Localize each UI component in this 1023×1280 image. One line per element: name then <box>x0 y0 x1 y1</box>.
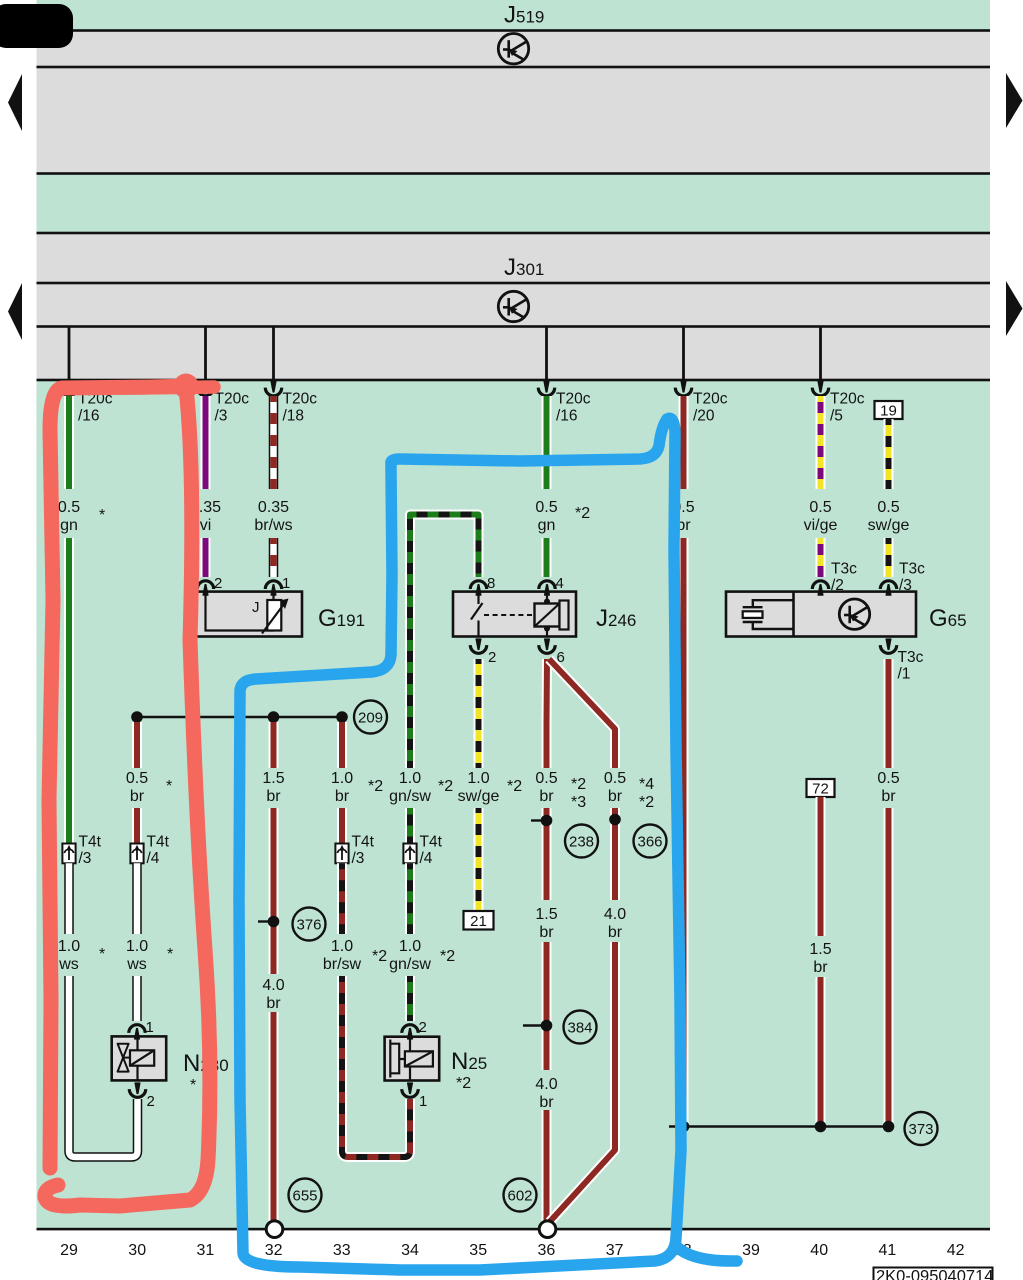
svg-text:0.5: 0.5 <box>877 770 899 787</box>
svg-text:br: br <box>539 788 554 805</box>
svg-text:*: * <box>99 946 105 963</box>
svg-text:/16: /16 <box>78 408 100 425</box>
N280 valve triangles <box>118 1044 129 1072</box>
ground bus line 373 <box>669 1125 889 1127</box>
svg-text:*2: *2 <box>639 794 654 811</box>
svg-text:376: 376 <box>296 917 321 934</box>
wire 0.5 br track 38 <box>679 396 689 1127</box>
svg-text:34: 34 <box>401 1242 419 1259</box>
node circle 602 <box>504 1179 537 1212</box>
valve N280 box <box>112 1036 167 1080</box>
wire drop from J301 track 38 <box>682 327 685 381</box>
junction dot and stub 384 on track 36 <box>523 1024 545 1026</box>
svg-text:/20: /20 <box>693 408 715 425</box>
svg-text:2: 2 <box>147 1093 155 1110</box>
svg-text:*: * <box>167 946 173 963</box>
svg-text:0.5: 0.5 <box>535 499 557 516</box>
svg-text:T4t: T4t <box>420 834 443 851</box>
svg-text:/4: /4 <box>420 850 433 867</box>
svg-text:/3: /3 <box>79 850 92 867</box>
svg-text:br: br <box>266 788 281 805</box>
svg-text:br: br <box>539 1094 554 1111</box>
G65 pin T3c/1 <box>880 639 896 653</box>
svg-text:/18: /18 <box>283 408 305 425</box>
svg-text:1.5: 1.5 <box>535 906 557 923</box>
svg-text:209: 209 <box>358 710 383 727</box>
wire 0.5 br from J246 pin 6 diagonal to track 37 <box>549 659 615 1222</box>
svg-text:4.0: 4.0 <box>262 977 284 994</box>
sensor G191 box <box>187 592 302 637</box>
G65 symbol K in circle <box>839 599 869 629</box>
svg-text:37: 37 <box>606 1242 624 1259</box>
part number box 2K0-095040714 <box>874 1268 993 1280</box>
G65 crystal pressure element <box>753 600 794 629</box>
svg-text:36: 36 <box>538 1242 556 1259</box>
svg-text:vi/ge: vi/ge <box>804 517 838 534</box>
pressure sensor G65 box <box>726 592 916 637</box>
control unit J519 band (title strip) <box>37 0 991 31</box>
svg-text:br: br <box>608 924 623 941</box>
connector T20c/16 track 36 <box>538 382 554 396</box>
ground terminal track 36 <box>539 1221 556 1238</box>
svg-text:0.5: 0.5 <box>877 499 899 516</box>
svg-text:*2: *2 <box>440 948 455 965</box>
svg-text:1.0: 1.0 <box>331 770 353 787</box>
svg-text:31: 31 <box>197 1242 215 1259</box>
svg-text:8: 8 <box>487 575 495 592</box>
svg-text:T20c: T20c <box>215 391 250 408</box>
connector T4t/4 track 34 <box>403 844 416 864</box>
svg-text:ws: ws <box>126 956 147 973</box>
G191 pin 1 <box>265 581 281 595</box>
svg-text:2: 2 <box>488 649 496 666</box>
N25 pin 2 <box>402 1025 418 1039</box>
svg-text:T20c: T20c <box>830 391 865 408</box>
svg-text:1.0: 1.0 <box>467 770 489 787</box>
svg-text:2: 2 <box>214 575 222 592</box>
svg-text:*2: *2 <box>372 948 387 965</box>
svg-text:sw/ge: sw/ge <box>868 517 910 534</box>
wire 1.5 br below box 72 track 40 <box>816 797 826 1127</box>
svg-text:br: br <box>608 788 623 805</box>
red marker loop annotation <box>49 386 190 1168</box>
svg-text:br: br <box>335 788 350 805</box>
svg-text:41: 41 <box>879 1242 897 1259</box>
wire 0.5 br from J246 pin 6 straight down track 36 <box>542 659 553 1221</box>
svg-text:J: J <box>252 599 260 616</box>
junction dot and stub 376 on track 32 <box>258 920 272 922</box>
svg-text:/3: /3 <box>352 850 365 867</box>
svg-text:39: 39 <box>742 1242 760 1259</box>
svg-text:0.5: 0.5 <box>809 499 831 516</box>
svg-text:T3c: T3c <box>899 561 925 578</box>
band separator line 5 <box>37 282 991 285</box>
wire 1.0 ws track 29 U-shape to N280 pin 2 <box>69 863 138 1157</box>
right page arrow top <box>1006 73 1023 128</box>
left page arrow bottom <box>8 283 22 340</box>
svg-text:br/sw: br/sw <box>323 956 362 973</box>
svg-text:33: 33 <box>333 1242 351 1259</box>
J519 internal gray band upper <box>37 31 991 68</box>
svg-text:br: br <box>881 788 896 805</box>
svg-text:1: 1 <box>146 1019 154 1036</box>
svg-text:vi: vi <box>200 517 212 534</box>
wire 1.0 sw/ge from J246 pin 2 to terminal 21 <box>474 659 484 911</box>
left page arrow top <box>8 74 22 131</box>
clutch N25 box <box>385 1037 440 1081</box>
svg-text:gn/sw: gn/sw <box>389 956 431 973</box>
node circle 655 <box>289 1179 322 1212</box>
N280 solenoid rect <box>130 1050 154 1065</box>
terminal box 21 <box>464 911 494 930</box>
svg-text:*2: *2 <box>571 776 586 793</box>
svg-text:0.5: 0.5 <box>126 770 148 787</box>
bottom border line of schematic <box>37 1228 991 1231</box>
wire 0.5 vi/ge track 40 <box>816 396 826 577</box>
J246 pin 6 <box>539 639 555 653</box>
wire 0.5 br below G65 track 41 <box>884 659 894 1127</box>
svg-text:*2: *2 <box>368 778 383 795</box>
svg-text:/2: /2 <box>831 577 844 594</box>
ground terminal track 32 <box>266 1221 283 1238</box>
wire 1.5 br / 4.0 br track 32 <box>269 722 279 1221</box>
svg-text:1.0: 1.0 <box>58 938 80 955</box>
svg-text:35: 35 <box>469 1242 487 1259</box>
svg-text:30: 30 <box>128 1242 146 1259</box>
wire drop from J301 track 36 <box>545 327 548 381</box>
G191 internal wire pin2 to resistor <box>206 592 275 631</box>
connector T20c/18 track 32 <box>265 382 281 396</box>
svg-text:0.5: 0.5 <box>535 770 557 787</box>
band separator line 3 <box>37 172 991 175</box>
svg-text:384: 384 <box>567 1020 592 1037</box>
svg-text:*: * <box>166 778 172 795</box>
junction node line 209 <box>137 716 342 718</box>
svg-text:ws: ws <box>58 956 79 973</box>
svg-text:42: 42 <box>947 1242 965 1259</box>
connector T4t/3 track 33 <box>335 844 348 864</box>
svg-text:1.0: 1.0 <box>126 938 148 955</box>
svg-text:40: 40 <box>810 1242 828 1259</box>
svg-text:0.5: 0.5 <box>58 499 80 516</box>
J301 wire exit band <box>37 327 991 381</box>
svg-text:T4t: T4t <box>79 834 102 851</box>
junction dot 366 on track 37 <box>609 814 621 826</box>
wire 0.5 sw/ge track 41 <box>884 419 894 577</box>
svg-text:br/ws: br/ws <box>254 517 292 534</box>
connector T20c/3 track 31 <box>197 382 213 396</box>
G65 internal divider <box>792 592 795 637</box>
band separator line 4 <box>37 232 991 235</box>
G65 pin T3c/3 <box>880 581 896 595</box>
svg-text:/3: /3 <box>215 408 228 425</box>
svg-text:0.5: 0.5 <box>604 770 626 787</box>
J246 internal solid state block <box>535 604 560 627</box>
wire 0.35 vi track 31 <box>201 396 211 577</box>
J519 internal gray band lower <box>37 67 991 174</box>
J246 internal dashed control line <box>484 614 533 616</box>
J246 pin 8 <box>470 581 486 595</box>
blue marker loop annotation <box>239 418 681 1270</box>
svg-text:72: 72 <box>812 781 829 798</box>
svg-text:*2: *2 <box>507 778 522 795</box>
svg-text:1.5: 1.5 <box>262 770 284 787</box>
svg-text:366: 366 <box>637 834 662 851</box>
relay J246 box <box>453 592 576 637</box>
terminal box 72 track 40 <box>807 779 835 797</box>
svg-text:1.0: 1.0 <box>399 770 421 787</box>
wire 1.0 br/sw track 33 U-shape to N25 pin 1 <box>342 863 410 1157</box>
svg-text:br: br <box>813 959 828 976</box>
connector T4t/3 track 29 <box>62 844 75 864</box>
connector T20c/5 track 40 <box>812 382 828 396</box>
svg-text:/16: /16 <box>556 408 578 425</box>
mint gap band between J519 and J301 <box>37 174 991 234</box>
svg-text:32: 32 <box>265 1242 283 1259</box>
N25 pin 1 <box>402 1083 418 1097</box>
svg-text:4: 4 <box>556 575 564 592</box>
symbol K in circle for J519 <box>498 34 528 64</box>
svg-text:29: 29 <box>60 1242 78 1259</box>
black redaction block top-left <box>0 4 73 48</box>
svg-text:1.0: 1.0 <box>399 938 421 955</box>
svg-text:br: br <box>266 995 281 1012</box>
N280 pin 2 <box>129 1083 145 1097</box>
svg-text:4.0: 4.0 <box>604 906 626 923</box>
svg-text:T20c: T20c <box>283 391 318 408</box>
svg-text:1: 1 <box>282 575 290 592</box>
symbol K in circle for J301 <box>498 291 528 321</box>
svg-text:0.35: 0.35 <box>258 499 289 516</box>
svg-text:655: 655 <box>292 1188 317 1205</box>
svg-text:2: 2 <box>419 1019 427 1036</box>
svg-text:T20c: T20c <box>556 391 591 408</box>
wire 0.5 gn track 29 upper <box>64 396 74 844</box>
svg-text:1.5: 1.5 <box>809 941 831 958</box>
svg-text:/3: /3 <box>899 577 912 594</box>
svg-text:21: 21 <box>470 913 487 930</box>
svg-text:2K0-095040714: 2K0-095040714 <box>876 1268 993 1280</box>
control unit J301 title band <box>37 233 991 283</box>
svg-text:*: * <box>190 1077 196 1094</box>
wire 1.0 br track 33 <box>337 722 347 844</box>
N25 solenoid rect <box>405 1051 433 1066</box>
band separator line 6 <box>37 325 991 328</box>
wire drop from J301 track 31 <box>204 327 207 381</box>
wire 1.0 gn/sw track 34 to N25 pin 2 <box>405 863 415 1021</box>
svg-text:*3: *3 <box>571 794 586 811</box>
svg-text:19: 19 <box>880 403 897 420</box>
svg-text:602: 602 <box>507 1188 532 1205</box>
connector T20c/20 track 38 <box>675 382 691 396</box>
J246 pin 2 <box>470 639 486 653</box>
svg-text:gn/sw: gn/sw <box>389 788 431 805</box>
svg-text:*4: *4 <box>639 776 654 793</box>
band separator line 2 <box>37 66 991 69</box>
wire drop from J301 track 40 <box>819 327 822 381</box>
svg-text:1: 1 <box>419 1093 427 1110</box>
band separator line 7 <box>37 379 991 382</box>
svg-text:T20c: T20c <box>693 391 728 408</box>
svg-text:br: br <box>539 924 554 941</box>
svg-text:*2: *2 <box>438 778 453 795</box>
wire drop from J301 track 32 <box>272 327 275 381</box>
J246 internal switch contact <box>471 592 483 637</box>
svg-text:br: br <box>130 788 145 805</box>
wire 0.5 br track 30 <box>132 722 142 844</box>
N25 clutch bracket symbol <box>390 1040 405 1078</box>
svg-text:*: * <box>99 507 105 524</box>
wire 0.35 br/ws track 32 <box>269 396 279 577</box>
svg-text:/5: /5 <box>830 408 843 425</box>
G65 pin T3c/2 <box>812 581 828 595</box>
node circle 209 <box>354 701 387 734</box>
svg-text:238: 238 <box>569 834 594 851</box>
N280 pin 1 <box>129 1025 145 1039</box>
connector T4t/4 track 30 <box>130 844 143 864</box>
svg-text:gn: gn <box>60 517 78 534</box>
node circle 373 <box>905 1112 938 1145</box>
junction dot and stub 238 on track 36 <box>531 819 545 821</box>
wire 0.5 gn track 36 <box>542 396 552 577</box>
svg-text:T4t: T4t <box>147 834 170 851</box>
right page arrow bottom <box>1006 281 1023 336</box>
svg-text:T4t: T4t <box>352 834 375 851</box>
J301 symbol band <box>37 283 991 327</box>
svg-text:1.0: 1.0 <box>331 938 353 955</box>
G191 variable resistor symbol <box>267 600 281 631</box>
svg-text:/4: /4 <box>147 850 160 867</box>
connector T20c/16 track 29 <box>61 382 77 396</box>
svg-text:*2: *2 <box>575 505 590 522</box>
svg-text:T3c: T3c <box>831 561 857 578</box>
svg-text:/1: /1 <box>898 666 911 683</box>
terminal box 19 track 41 <box>875 401 903 419</box>
wire drop from J301 track 29 <box>68 327 71 381</box>
svg-text:373: 373 <box>908 1121 933 1138</box>
J246 pin 4 <box>539 581 555 595</box>
G191 pin 2 <box>197 581 213 595</box>
wire 1.0 gn/sw from T4t/4 up to J246 pin 8 <box>410 515 479 844</box>
band separator line 1 <box>37 29 991 32</box>
svg-text:sw/ge: sw/ge <box>458 788 500 805</box>
wire 1.0 ws track 30 to N280 pin 1 <box>132 863 142 1021</box>
svg-text:T3c: T3c <box>898 649 924 666</box>
svg-text:4.0: 4.0 <box>535 1076 557 1093</box>
svg-text:*2: *2 <box>456 1075 471 1092</box>
svg-text:gn: gn <box>538 517 556 534</box>
